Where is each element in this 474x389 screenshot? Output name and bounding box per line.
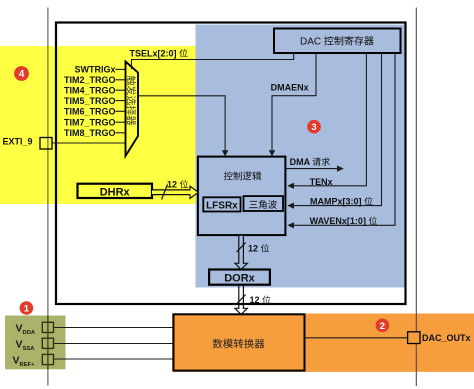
svg-text:MAMPx[3:0]: MAMPx[3:0]: [310, 196, 362, 206]
svg-text:DAC: DAC: [300, 37, 321, 48]
svg-text:WAVENx[1:0]: WAVENx[1:0]: [310, 216, 366, 226]
svg-text:TIM5_TRGO: TIM5_TRGO: [64, 96, 116, 106]
svg-text:DAC_OUTx: DAC_OUTx: [422, 333, 471, 343]
svg-text:SWTRIGx: SWTRIGx: [74, 65, 115, 75]
svg-text:DMAENx: DMAENx: [271, 82, 309, 92]
svg-text:2: 2: [380, 321, 385, 332]
svg-text:TIM2_TRGO: TIM2_TRGO: [64, 75, 116, 85]
svg-text:12: 12: [250, 295, 260, 305]
svg-text:LFSRx: LFSRx: [206, 201, 238, 212]
svg-text:TIM7_TRGO: TIM7_TRGO: [64, 117, 116, 127]
svg-text:DHRx: DHRx: [100, 186, 131, 198]
svg-text:12: 12: [248, 244, 258, 254]
svg-text:EXTI_9: EXTI_9: [3, 137, 33, 147]
svg-text:DORx: DORx: [224, 273, 255, 285]
svg-text:1: 1: [24, 304, 30, 315]
svg-text:DMA: DMA: [290, 157, 311, 167]
svg-text:TSELx[2:0]: TSELx[2:0]: [129, 49, 176, 59]
svg-text:TENx: TENx: [310, 177, 333, 187]
svg-text:TIM8_TRGO: TIM8_TRGO: [64, 128, 116, 138]
svg-text:TIM6_TRGO: TIM6_TRGO: [64, 107, 116, 117]
svg-text:12: 12: [167, 180, 177, 190]
svg-text:TIM4_TRGO: TIM4_TRGO: [64, 85, 116, 95]
svg-text:3: 3: [311, 122, 316, 133]
svg-text:4: 4: [19, 69, 25, 80]
